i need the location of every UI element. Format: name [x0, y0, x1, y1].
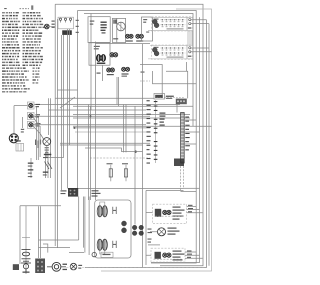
- wire to P2-1: [14, 105, 27, 107]
- oven assembly box: [95, 200, 131, 258]
- broil relay marks: [113, 207, 116, 214]
- terminal block text block: [62, 30, 72, 35]
- switch SU-RR contact row upper: [161, 47, 187, 49]
- relay box C marks: [113, 20, 114, 24]
- wire row stubs left: [146, 212, 158, 255]
- door lock connector cluster: [35, 259, 45, 274]
- wire bottom dashed to right: [66, 267, 207, 269]
- connector pair below panel: [122, 67, 126, 71]
- wire band y110: [49, 109, 147, 111]
- bake relay marks: [113, 241, 116, 248]
- cooling fan motor: [70, 263, 77, 270]
- connector strip lower blob: [174, 159, 184, 167]
- wire corner to bundle y188.3: [184, 187, 200, 189]
- wire y157.6 segment: [44, 157, 64, 159]
- wire L1 bus (top, routes right side down): [55, 4, 203, 266]
- wire feeder x142.5: [143, 44, 147, 268]
- control board left wire labels: [147, 100, 151, 163]
- relay box C divider: [116, 18, 118, 42]
- wire feeder x186.5 upper: [186, 62, 188, 71]
- wire band y124.8: [33, 124, 146, 126]
- wire right bundle 1: [85, 20, 207, 268]
- bake row element: [155, 252, 161, 259]
- bake row labels: [173, 251, 182, 252]
- wire power L2 drop: [63, 35, 65, 158]
- wire band y118: [73, 117, 190, 119]
- wire long y188.5: [68, 188, 184, 190]
- wire y252.6: [69, 252, 84, 254]
- surface element SU-RR coils: [152, 47, 159, 56]
- relay box B inner mark: [94, 46, 100, 47]
- wire control drops: [181, 166, 184, 191]
- wire cluster A stubs to bundle: [191, 20, 209, 24]
- fuse F2: [125, 165, 127, 182]
- junction dot 1: [90, 115, 92, 117]
- bus pin stubs x77: [76, 20, 79, 21]
- wire small corner y244: [43, 244, 48, 253]
- relay box E: [142, 17, 153, 41]
- broil element (hatched ovals): [97, 206, 102, 217]
- notes text block: [2, 12, 44, 92]
- wire N bus (second top rail): [78, 11, 197, 264]
- connector pair 2 right of oven box: [139, 225, 144, 230]
- connector P2-3: [27, 121, 34, 128]
- wire label column: [35, 140, 36, 146]
- sensor row left marks: [148, 229, 152, 230]
- wire y151.6 segment: [121, 151, 142, 153]
- wire band y104.5: [34, 104, 180, 106]
- relay box B (lower): [89, 43, 110, 65]
- wire power L1 drop: [61, 35, 63, 190]
- wire pair to lock motor: [39, 206, 41, 258]
- note header figure number: [31, 5, 33, 9]
- connector pair right of oven box: [132, 225, 137, 230]
- switch SU-RR pilot lamp: [186, 46, 188, 59]
- broil row dashed rail: [155, 215, 184, 217]
- relay box E marks: [143, 19, 147, 20]
- wire feeder x117/118.5: [117, 77, 119, 106]
- ground connector at bus: [45, 24, 50, 29]
- wire y90 jog: [58, 89, 78, 91]
- wire SU-RF top rail: [150, 16, 193, 18]
- wire cluster B stubs to bundle: [191, 48, 212, 52]
- latch solenoid stack: [25, 206, 27, 274]
- terminal block P9 pins: [59, 18, 61, 20]
- wire L2 bus (third top rail): [84, 14, 193, 127]
- connector P7 blob: [68, 188, 78, 197]
- switch SU-RR contact row lower: [161, 52, 187, 54]
- latch switch: [21, 263, 31, 272]
- convection motor: [43, 138, 51, 146]
- clock terminal box: [16, 144, 24, 152]
- lock motor terminals: [63, 264, 68, 265]
- wire right bundle 3: [208, 24, 210, 266]
- wire bottom-right nested corners: [185, 207, 203, 259]
- relay box B right pins: [110, 53, 114, 57]
- broil row right labels: [188, 205, 193, 206]
- wire left bus N drop: [57, 19, 59, 248]
- wire y132 segment: [75, 131, 150, 133]
- broil row element: [155, 209, 161, 217]
- note header mark: [4, 8, 7, 9]
- terminal block body: [58, 17, 74, 29]
- wire left bus L1 drop: [54, 4, 56, 246]
- wire panel bottom rail y43.5: [96, 43, 151, 45]
- broil circuit row outline: [153, 204, 187, 223]
- wire feeder x135 with junction: [134, 106, 136, 224]
- wire cluster B to P5: [166, 71, 188, 98]
- convection motor label: [45, 147, 49, 148]
- bake row right labels: [187, 250, 192, 251]
- clock label text: [166, 96, 174, 97]
- wire motor drop: [46, 145, 48, 157]
- wire feeder x123.5/126: [124, 105, 127, 153]
- wire x89.1: [88, 197, 90, 256]
- junction dot 2: [74, 127, 76, 129]
- wire y148 jog: [85, 148, 121, 152]
- switch SU-RF contact row lower: [161, 24, 187, 26]
- wire diagonal from P2-3: [33, 126, 40, 134]
- wire cluster B jog to bundle: [153, 71, 197, 84]
- relay box B contact circles: [97, 55, 106, 62]
- wire clock feed: [13, 106, 15, 134]
- wire band y116.2: [33, 115, 150, 117]
- wire right bundle 2: [151, 17, 200, 262]
- wire band y106.2: [73, 105, 193, 107]
- wire band y143.3: [60, 142, 150, 144]
- bake row dashed rail: [154, 258, 184, 260]
- wire cluster B to control top: [140, 65, 162, 96]
- sensor labels: [168, 228, 177, 229]
- connector pins P4: [136, 34, 140, 38]
- oven lamp pair: [122, 221, 127, 226]
- power plug cluster: [13, 264, 19, 270]
- door lock motor: [52, 262, 61, 271]
- switch SU-RF label row: [167, 28, 184, 29]
- switch SU-RF pilot lamp: [186, 17, 188, 30]
- wire feeder x48.5: [48, 98, 50, 135]
- wire feeder x88.5/90.5: [89, 105, 91, 201]
- switch SU-RF contact row upper: [161, 19, 187, 21]
- connector P5 cluster: [176, 99, 187, 105]
- wire diagonal from P2-2: [33, 117, 38, 125]
- relay box C: [112, 18, 125, 42]
- broil row connectors: [163, 210, 167, 214]
- oven sensor circle: [158, 228, 166, 236]
- switch SU-RF contacts: [162, 19, 184, 27]
- control board pin column: [155, 100, 157, 163]
- wire SU-RF bottom rail: [148, 30, 193, 32]
- wire bus drop x91: [90, 14, 92, 111]
- control board right wire labels: [185, 117, 190, 151]
- fuse F1: [110, 165, 112, 182]
- wire y190.5 segment: [146, 190, 184, 192]
- oven light switch: [30, 158, 32, 178]
- wire band y145: [60, 144, 143, 146]
- wire stub y81: [140, 80, 150, 82]
- switch SU-RR label row: [167, 57, 184, 58]
- surface element SU-RF coils: [152, 19, 159, 28]
- door switch cluster wires: [46, 152, 51, 178]
- control board middle marks: [160, 113, 166, 126]
- wire y244.9 segment: [148, 244, 160, 246]
- clock display box: [154, 94, 165, 100]
- wire band y114.5: [73, 114, 190, 116]
- wire SU-RR bottom rail: [148, 58, 193, 60]
- wire control to bundle: [184, 120, 200, 144]
- wire feeder x95.5: [95, 42, 97, 201]
- fan motor circle: [117, 22, 126, 31]
- connector pins P3: [126, 34, 130, 38]
- switch SU-RR contacts: [162, 47, 184, 55]
- wire corner to bundle y191.4: [181, 190, 197, 192]
- connector pair below panel left: [107, 68, 111, 72]
- fan motor label: [78, 265, 82, 266]
- clock set contact: [21, 117, 23, 128]
- clock motor: [9, 134, 18, 143]
- note header dashed rule: [20, 8, 30, 10]
- frame corner wire top-right to bottom: [101, 9, 212, 271]
- control top dashed label row: [155, 97, 185, 99]
- wire bus drop x77.5: [77, 11, 79, 189]
- wire feeder x50.5: [50, 98, 52, 157]
- bake circuit row outline: [151, 248, 185, 262]
- terminal block labels L1 N L2: [52, 21, 55, 22]
- broil row labels: [173, 207, 181, 208]
- connector strip P1 (hatched bar): [181, 113, 185, 164]
- wire left drop x17.8: [19, 206, 21, 264]
- wire y247.6: [39, 247, 71, 249]
- wire diagonal to motor: [40, 134, 43, 140]
- wire diagonal mid: [60, 97, 75, 108]
- wire stub x102.5: [102, 65, 104, 81]
- relay box A (oven control relay): [88, 17, 110, 43]
- connector P2-2: [27, 112, 34, 119]
- wire band y98.2: [55, 97, 154, 99]
- wire band y127.9: [73, 127, 150, 129]
- connector P7 label: [61, 190, 67, 191]
- wire y240 corner: [39, 197, 79, 241]
- wire oven box internals: [100, 202, 105, 254]
- wire band y126.3: [73, 125, 212, 127]
- wire surface units link: [188, 31, 192, 45]
- relay box A coil marks: [101, 22, 107, 23]
- surface unit switch SU-RR outline: [152, 45, 193, 59]
- jog label: [141, 72, 145, 73]
- wire y206.3: [20, 205, 61, 207]
- wire power drops to mid: [68, 29, 70, 188]
- labels above oven box: [92, 190, 99, 191]
- wire pair x83.4: [83, 197, 85, 253]
- connector P2-1: [27, 102, 34, 109]
- wire P5 to strip: [176, 105, 178, 113]
- surface unit switch SU-RF outline: [152, 17, 193, 31]
- wire y158 dashed: [90, 157, 150, 159]
- bake element (hatched ovals): [97, 239, 102, 250]
- bake row connectors: [163, 253, 167, 257]
- oven box bottom lamp: [92, 252, 96, 256]
- wire circuit drops from connectors: [37, 107, 41, 160]
- door switch marks: [44, 154, 52, 155]
- wire SU-RR top rail: [150, 45, 193, 47]
- oven box bottom label box: [101, 252, 113, 257]
- feeder label: [97, 73, 101, 74]
